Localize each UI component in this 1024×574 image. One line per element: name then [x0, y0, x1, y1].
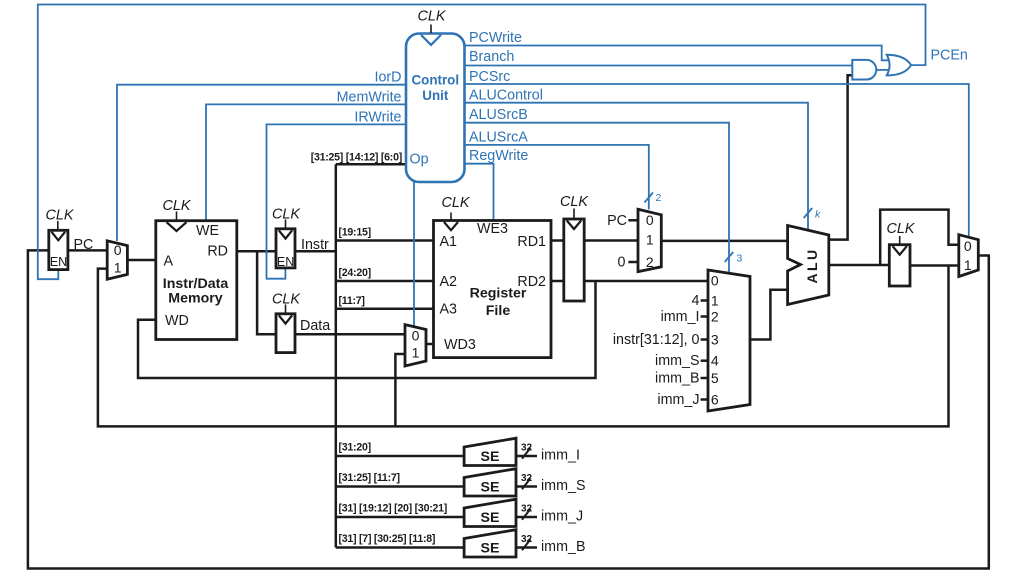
svg-text:2: 2	[646, 254, 654, 270]
svg-text:CLK: CLK	[163, 198, 192, 214]
svg-text:CLK: CLK	[272, 207, 301, 223]
svg-text:[31] [19:12] [20] [30:21]: [31] [19:12] [20] [30:21]	[339, 503, 448, 515]
wire input dash 4 to SrcB mux input 1	[701, 299, 708, 302]
svg-text:[19:15]: [19:15]	[339, 227, 371, 239]
wire ALUControl from Control Unit to ALU	[465, 103, 809, 230]
address mux IorD (0/1)	[107, 241, 127, 279]
svg-text:0: 0	[618, 255, 626, 271]
svg-text:1: 1	[711, 292, 719, 308]
wire Branch from Control Unit to AND gate	[465, 65, 853, 67]
wire RD tap down to Data register	[257, 251, 276, 334]
slash 32 on imm_B output	[522, 539, 531, 550]
svg-text:WE3: WE3	[477, 221, 508, 237]
svg-text:WE: WE	[196, 223, 219, 239]
svg-text:32: 32	[521, 473, 533, 484]
wire bus tap to SE imm_I	[336, 455, 464, 458]
AND gate	[852, 60, 876, 80]
svg-text:imm_B: imm_B	[655, 371, 699, 387]
wire WD3 mux output to register file WD3	[426, 343, 434, 346]
Instr/Data Memory	[156, 221, 237, 340]
wire ALU Zero flag up to AND gate	[829, 75, 853, 239]
wire Data register output to WD3 mux input 0	[295, 333, 405, 336]
wire A register output to SrcA mux input 1	[584, 239, 638, 242]
slash 32 on imm_S output	[522, 478, 531, 489]
wire input dash imm_B to SrcB mux input 5	[701, 377, 708, 380]
svg-text:3: 3	[737, 253, 743, 265]
svg-text:RD1: RD1	[517, 234, 546, 250]
wire Control Unit bottom select to WD3 mux	[413, 182, 415, 326]
svg-text:[24:20]: [24:20]	[339, 267, 371, 279]
svg-text:IRWrite: IRWrite	[354, 110, 401, 126]
svg-text:0: 0	[114, 242, 122, 258]
svg-text:1: 1	[114, 260, 122, 276]
svg-text:[11:7]: [11:7]	[339, 295, 365, 307]
svg-text:IorD: IorD	[374, 70, 401, 86]
mux SrcA (0/1/2)	[638, 209, 661, 271]
wire bus tap to SE imm_B	[336, 546, 464, 549]
wire bus tap [19:15] to A1	[336, 239, 434, 242]
svg-text:Memory: Memory	[168, 291, 223, 307]
wire SE imm_I output	[516, 455, 537, 458]
wire bus tap to SE imm_J	[336, 516, 464, 519]
wire bus tap [11:7] to A3	[336, 308, 434, 311]
svg-text:imm_S: imm_S	[655, 353, 699, 369]
OR gate	[887, 55, 911, 76]
svg-text:PCSrc: PCSrc	[469, 69, 510, 85]
svg-text:RD: RD	[207, 244, 228, 260]
wire instruction bus vertical	[335, 164, 338, 547]
svg-text:CLK: CLK	[887, 221, 916, 237]
wire SE imm_S output	[516, 485, 537, 488]
svg-text:[31:25] [11:7]: [31:25] [11:7]	[339, 472, 400, 484]
svg-text:ALUControl: ALUControl	[469, 88, 543, 104]
wire SrcB mux output to ALU	[750, 290, 788, 340]
wire RD1 to A/B register	[551, 239, 564, 242]
svg-text:WD: WD	[165, 313, 189, 329]
svg-text:2: 2	[656, 192, 662, 204]
wire result feedback up to WD3 mux input 1	[395, 354, 405, 426]
svg-text:1: 1	[964, 257, 972, 273]
svg-text:RegWrite: RegWrite	[469, 148, 528, 164]
wire RD2 to A/B register	[551, 280, 564, 283]
mux WD3 (0/1)	[405, 325, 426, 366]
svg-text:ALUSrcB: ALUSrcB	[469, 107, 528, 123]
slash 3 on ALUSrcB select	[725, 252, 734, 262]
svg-text:WD3: WD3	[444, 337, 476, 353]
svg-text:A2: A2	[440, 274, 458, 290]
svg-text:PCWrite: PCWrite	[469, 30, 522, 46]
svg-text:Data: Data	[300, 318, 330, 334]
sign extend SE imm_I	[464, 438, 516, 465]
slash 2 on ALUSrcA select	[645, 193, 654, 203]
svg-text:A1: A1	[440, 234, 458, 250]
wire SrcA mux output to ALU	[661, 240, 787, 243]
svg-text:A: A	[164, 254, 174, 270]
svg-text:PC: PC	[607, 213, 627, 229]
wire input dash 0 to SrcA mux input 2	[628, 261, 638, 264]
svg-text:[31] [7] [30:25] [11:8]: [31] [7] [30:25] [11:8]	[339, 533, 436, 545]
slash k on ALUControl	[804, 208, 813, 218]
wire input dash imm_S to SrcB mux input 4	[701, 359, 708, 362]
wire PCWrite from Control Unit to OR gate	[465, 46, 890, 61]
wire input dash imm_J to SrcB mux input 6	[701, 398, 708, 401]
wire SE imm_B output	[516, 546, 537, 549]
svg-text:6: 6	[711, 391, 719, 407]
svg-text:5: 5	[711, 370, 719, 386]
wire input dash PC to SrcA mux input 0	[628, 219, 638, 222]
sign extend SE imm_B	[464, 530, 516, 557]
svg-text:k: k	[815, 209, 821, 221]
sign extend SE imm_J	[464, 499, 516, 526]
svg-text:imm_S: imm_S	[541, 478, 585, 494]
wire ALUSrcB from Control Unit to SrcB mux select	[465, 123, 730, 274]
svg-text:32: 32	[521, 534, 533, 545]
mux SrcB (0-6)	[708, 270, 750, 411]
svg-text:imm_B: imm_B	[541, 539, 585, 555]
wire input dash instr[31:12],0 to SrcB mux input 3	[701, 338, 708, 341]
register ALUOut (flip-flop)	[889, 245, 910, 286]
svg-text:1: 1	[646, 231, 654, 247]
wire PC-prime feedback loop (right mux output, down right side, along bottom, up left side to PC register input)	[28, 250, 989, 568]
register Instr (flip-flop with enable)	[276, 229, 295, 268]
register Data (flip-flop)	[276, 314, 295, 353]
svg-text:CLK: CLK	[46, 208, 75, 224]
wire Instr register output to instruction bus	[295, 250, 336, 253]
wire bus tap [24:20] to A2	[336, 280, 434, 283]
wire RegWrite from Control Unit to register file WE3	[465, 164, 494, 221]
svg-text:Op: Op	[410, 152, 429, 168]
svg-text:Unit: Unit	[422, 88, 449, 103]
wire bus tap to SE imm_S	[336, 485, 464, 488]
wire RD2 feedback to memory WD	[138, 281, 596, 378]
wire AND gate output to OR gate	[876, 69, 890, 71]
wire ALUSrcA from Control Unit to SrcA mux select	[465, 145, 649, 210]
Control Unit	[406, 34, 465, 183]
svg-text:A3: A3	[440, 302, 458, 318]
wire SE imm_J output	[516, 516, 537, 519]
svg-text:0: 0	[646, 212, 654, 228]
svg-text:imm_J: imm_J	[657, 392, 699, 408]
svg-text:CLK: CLK	[560, 194, 589, 210]
sign extend SE imm_S	[464, 469, 516, 496]
wire input dash imm_I to SrcB mux input 2	[701, 315, 708, 318]
svg-text:PC: PC	[74, 237, 94, 253]
svg-text:0: 0	[412, 327, 420, 343]
svg-text:SE: SE	[481, 541, 500, 557]
wire Op field to Control Unit	[336, 163, 406, 166]
wire ALUOut register output to PCSrc mux input 1	[910, 264, 959, 267]
svg-text:CLK: CLK	[442, 195, 471, 211]
wire ALU result over the top to PCSrc mux input 0	[880, 210, 959, 265]
svg-text:4: 4	[692, 293, 700, 309]
svg-text:CLK: CLK	[272, 292, 301, 308]
svg-text:Register: Register	[470, 286, 527, 302]
ALU U1	[788, 226, 829, 305]
svg-text:0: 0	[711, 272, 719, 288]
svg-text:instr[31:12], 0: instr[31:12], 0	[613, 332, 700, 348]
wire ALU result to ALUOut register	[829, 264, 890, 267]
svg-text:imm_I: imm_I	[541, 448, 580, 464]
svg-text:Control: Control	[411, 72, 459, 87]
svg-text:imm_J: imm_J	[541, 509, 583, 525]
svg-text:SE: SE	[481, 449, 500, 465]
svg-text:4: 4	[711, 353, 719, 369]
register A/B (RD1/RD2 flip-flop)	[564, 219, 584, 301]
wire IRWrite from Control Unit to Instr register enable	[267, 124, 407, 278]
svg-text:Branch: Branch	[469, 49, 514, 65]
svg-text:[31:20]: [31:20]	[339, 442, 371, 454]
wire PCEn from OR gate around top to PC register enable	[38, 5, 926, 280]
svg-text:SE: SE	[481, 510, 500, 526]
svg-text:32: 32	[521, 443, 533, 454]
svg-text:ALU: ALU	[804, 248, 820, 284]
register PC (flip-flop with enable)	[49, 230, 68, 269]
svg-text:imm_I: imm_I	[661, 309, 700, 325]
Register File	[434, 221, 552, 358]
wire result feedback (ALUOut down and across to left)	[98, 266, 949, 427]
slash 32 on imm_J output	[522, 509, 531, 520]
slash 32 on imm_I output	[522, 448, 531, 459]
wire IorD from Control Unit to address mux select	[117, 85, 406, 241]
wire PC register output to address mux input 0	[68, 249, 107, 252]
svg-text:SE: SE	[481, 480, 500, 496]
svg-text:ALUSrcA: ALUSrcA	[469, 130, 528, 146]
svg-text:1: 1	[412, 344, 420, 360]
svg-text:Instr: Instr	[301, 237, 329, 253]
wire MemWrite from Control Unit to memory WE	[206, 104, 406, 220]
mux PCSrc (0/1)	[959, 235, 979, 277]
svg-text:MemWrite: MemWrite	[337, 90, 402, 106]
svg-text:EN: EN	[277, 255, 294, 269]
svg-text:EN: EN	[50, 255, 67, 269]
wire B register output to SrcB mux input 0	[584, 280, 708, 283]
svg-text:32: 32	[521, 504, 533, 515]
svg-text:2: 2	[711, 308, 719, 324]
svg-text:PCEn: PCEn	[931, 48, 968, 64]
wire memory RD output to Instr register	[237, 250, 276, 253]
svg-text:0: 0	[964, 238, 972, 254]
svg-text:[31:25] [14:12] [6:0]: [31:25] [14:12] [6:0]	[311, 152, 402, 164]
svg-text:File: File	[486, 303, 511, 319]
svg-text:3: 3	[711, 331, 719, 347]
svg-text:CLK: CLK	[418, 9, 447, 25]
wire address mux output to memory A input	[127, 259, 155, 262]
wire PCSrc from Control Unit to PCSrc mux select	[465, 84, 969, 237]
